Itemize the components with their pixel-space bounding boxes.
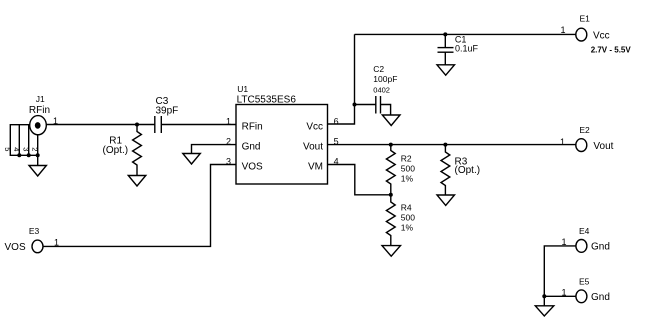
- junction J1 pin2: [36, 153, 40, 157]
- ground (J1): [29, 155, 46, 176]
- svg-text:Gnd: Gnd: [591, 292, 610, 303]
- svg-text:500: 500: [401, 213, 415, 223]
- wire VOS net (U1 pin 3 to E3): [43, 165, 236, 247]
- capacitor C3: [155, 116, 162, 133]
- wire J1 pin 4: [18, 125, 20, 156]
- svg-text:U1: U1: [237, 84, 248, 94]
- wire RFin net (C3 to U1 pin 1): [161, 124, 236, 126]
- junction (R3 tap): [443, 143, 447, 147]
- svg-text:(Opt.): (Opt.): [455, 165, 481, 176]
- junction (R2 tap): [389, 143, 393, 147]
- junction J1 pin4: [17, 153, 21, 157]
- svg-text:6: 6: [334, 116, 339, 126]
- svg-text:J1: J1: [36, 94, 45, 104]
- svg-text:RFin: RFin: [29, 105, 50, 116]
- svg-text:100pF: 100pF: [373, 74, 397, 84]
- junction (E4/E5 gnd): [542, 294, 546, 298]
- junction (C1 tap): [443, 32, 447, 36]
- ground (C2): [382, 115, 400, 126]
- ground (E4/E5): [535, 296, 554, 316]
- svg-text:500: 500: [401, 163, 415, 173]
- capacitor C2: [376, 96, 381, 114]
- wire RFin net (J1 to C3): [46, 124, 155, 126]
- svg-text:1: 1: [561, 288, 566, 298]
- wire J1 pin 2: [37, 134, 39, 155]
- svg-text:1: 1: [560, 25, 565, 35]
- ground (R4): [382, 246, 401, 257]
- svg-text:E3: E3: [29, 226, 40, 236]
- wire U1 pin 2 to ground: [192, 145, 237, 154]
- svg-text:C2: C2: [373, 64, 384, 74]
- svg-text:VOS: VOS: [242, 162, 263, 173]
- capacitor C1: [438, 34, 454, 64]
- IC U1 body: [236, 105, 328, 185]
- wire VM net (U1 pin 4 to R2/R4 junction): [328, 165, 391, 195]
- terminal E1: [576, 28, 587, 41]
- terminal E2: [576, 139, 587, 152]
- svg-text:Gnd: Gnd: [591, 241, 610, 252]
- wire J1 shield bracket: [10, 125, 37, 156]
- svg-text:1: 1: [54, 238, 59, 248]
- connector J1: [30, 116, 47, 135]
- svg-text:Gnd: Gnd: [242, 142, 261, 153]
- svg-text:(Opt.): (Opt.): [103, 145, 129, 156]
- terminal E5: [576, 290, 587, 303]
- svg-text:RFin: RFin: [242, 122, 263, 133]
- wire E5 to junction: [544, 295, 575, 297]
- svg-text:Vcc: Vcc: [306, 122, 323, 133]
- svg-text:2: 2: [31, 147, 40, 151]
- wire C2 to ground: [381, 105, 391, 116]
- svg-text:39pF: 39pF: [156, 106, 179, 117]
- svg-text:1%: 1%: [401, 173, 414, 183]
- svg-text:0402: 0402: [373, 85, 390, 94]
- svg-text:E1: E1: [580, 14, 591, 24]
- wire Vcc net top (to E1): [355, 33, 576, 35]
- svg-text:0.1uF: 0.1uF: [455, 43, 479, 53]
- svg-text:4: 4: [12, 147, 21, 151]
- svg-text:2.7V - 5.5V: 2.7V - 5.5V: [591, 45, 632, 54]
- svg-text:1: 1: [226, 116, 231, 126]
- svg-text:E2: E2: [579, 125, 590, 135]
- svg-text:VOS: VOS: [5, 242, 26, 253]
- ground (U1 pin 2): [183, 154, 201, 165]
- svg-text:Vcc: Vcc: [593, 31, 610, 42]
- svg-text:E5: E5: [579, 276, 590, 286]
- ground (C1): [437, 65, 455, 75]
- resistor R4: [386, 195, 395, 246]
- wire Vcc net vertical (pin 6 riser): [328, 34, 355, 124]
- svg-text:3: 3: [22, 147, 31, 151]
- junction (C2 tap): [353, 103, 357, 107]
- svg-text:VM: VM: [308, 162, 323, 173]
- ground (R1): [128, 176, 146, 187]
- terminal E3: [32, 240, 43, 253]
- resistor R2: [386, 145, 395, 195]
- resistor R1: [133, 125, 142, 176]
- wire J1 pin 3: [28, 125, 30, 156]
- resistor R3: [441, 145, 450, 195]
- wire C2 branch: [355, 104, 376, 106]
- wire E4 to ground riser: [544, 246, 575, 296]
- wire Vout net (U1 pin 5 to E2): [328, 144, 576, 146]
- svg-text:Vout: Vout: [593, 141, 613, 152]
- terminal E4: [576, 240, 587, 253]
- svg-text:E4: E4: [579, 226, 590, 236]
- svg-text:R4: R4: [401, 203, 412, 213]
- svg-text:1: 1: [560, 137, 565, 147]
- svg-text:LTC5535ES6: LTC5535ES6: [237, 94, 297, 105]
- svg-text:R2: R2: [401, 153, 412, 163]
- svg-text:5: 5: [3, 147, 12, 151]
- junction (R1 tap): [135, 123, 139, 127]
- junction J1 pin3: [27, 153, 31, 157]
- ground (R3): [437, 195, 455, 205]
- svg-text:Vout: Vout: [303, 142, 323, 153]
- svg-text:1%: 1%: [401, 223, 414, 233]
- junction (R2/R4): [389, 193, 393, 197]
